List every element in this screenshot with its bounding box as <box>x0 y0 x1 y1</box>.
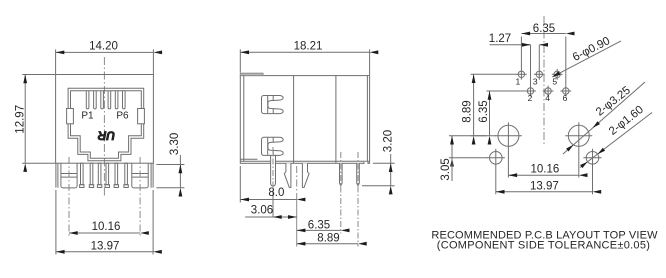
side view face line 2 <box>335 76 337 164</box>
dimension 8.0 <box>240 166 296 203</box>
dimension 8.89 layout <box>471 74 517 136</box>
small hole right <box>583 149 601 195</box>
front view centerline <box>103 57 105 197</box>
dimension 10.16 front <box>69 232 140 234</box>
shield leg 1 <box>80 163 84 187</box>
plastic snap leg right <box>302 163 309 187</box>
jack opening inner contour <box>71 91 142 159</box>
shield leg 4 <box>105 163 109 187</box>
shield leg 3 <box>97 163 101 187</box>
right tab centerline <box>139 157 141 236</box>
svg-text:8.89: 8.89 <box>317 232 339 244</box>
svg-text:6: 6 <box>563 93 568 103</box>
shield leg 6 <box>124 163 128 187</box>
right wall latch window <box>138 109 145 124</box>
svg-text:10.16: 10.16 <box>92 221 121 233</box>
dimension 3.20 <box>362 154 395 186</box>
contact pin 3 <box>101 91 104 109</box>
pcb hole pin 3 <box>534 69 545 80</box>
svg-text:3.30: 3.30 <box>169 133 181 155</box>
side pin 2 centerline <box>357 152 359 247</box>
contact pin 2 <box>94 91 97 109</box>
dimension 6.35 layout <box>487 91 526 136</box>
shield latch lower <box>262 137 284 155</box>
left wall latch window <box>67 109 74 124</box>
svg-text:10.16: 10.16 <box>531 163 560 175</box>
svg-text:1: 1 <box>516 76 521 86</box>
side view top lip <box>240 73 263 75</box>
svg-text:3: 3 <box>533 76 538 86</box>
svg-text:P6: P6 <box>116 111 129 122</box>
dimension 3.05 <box>449 136 488 181</box>
svg-text:6-φ0.90: 6-φ0.90 <box>571 35 612 64</box>
svg-text:3.06: 3.06 <box>251 205 273 217</box>
peg centerline <box>272 147 274 190</box>
svg-text:6.35: 6.35 <box>478 100 490 122</box>
svg-text:1.27: 1.27 <box>489 33 511 45</box>
svg-text:13.97: 13.97 <box>530 180 559 192</box>
leader 2-phi3.25 <box>563 82 645 154</box>
side view bottom inner line <box>240 160 369 162</box>
dimension 8.89 side <box>297 243 358 245</box>
dimension 6.35 side <box>297 229 341 231</box>
pcb hole pin 4 <box>543 86 554 97</box>
svg-text:3.05: 3.05 <box>440 158 452 180</box>
contact pin 5 <box>115 91 118 109</box>
jack opening outer contour <box>68 88 144 160</box>
pcb hole pin 6 <box>560 86 571 97</box>
dimension 10.16 layout <box>508 174 578 176</box>
dimension 3.30 <box>156 155 184 188</box>
snap centerline <box>296 166 298 193</box>
big hole right <box>565 122 592 177</box>
pcb hole pin 1 <box>516 69 527 80</box>
dimension 14.20 <box>56 49 154 74</box>
svg-text:3.20: 3.20 <box>382 130 394 152</box>
contact pin 4 <box>108 91 111 109</box>
right mounting tab <box>132 163 148 188</box>
dimension 12.97 <box>22 75 55 164</box>
svg-text:8.0: 8.0 <box>268 187 284 199</box>
pcb hole pin 5 <box>552 69 563 80</box>
shield leg 2 <box>89 163 93 187</box>
contact pin 6 <box>123 91 126 109</box>
side view body outline <box>240 76 369 164</box>
side pin 1 <box>340 163 343 185</box>
dimension 13.97 front <box>56 190 153 255</box>
side pin 2 <box>357 163 360 185</box>
leader 6-phi0.90 <box>552 41 621 77</box>
dimension 3.06 <box>245 190 297 217</box>
svg-text:12.97: 12.97 <box>14 105 26 134</box>
pcb hole pin 2 <box>525 86 536 97</box>
svg-text:2: 2 <box>528 93 533 103</box>
svg-text:P1: P1 <box>81 111 94 122</box>
dimension 1.27 <box>490 45 548 86</box>
small hole left <box>487 149 505 195</box>
shield board peg <box>271 155 276 186</box>
side view face line 1 <box>293 76 295 164</box>
flange right edge <box>151 163 153 187</box>
svg-text:5: 5 <box>552 76 557 86</box>
side view bottom left step <box>240 158 257 160</box>
dimension 13.97 layout <box>496 191 593 193</box>
flange left edge <box>56 163 58 187</box>
svg-text:6.35: 6.35 <box>533 23 555 35</box>
svg-text:6.35: 6.35 <box>308 219 330 231</box>
dimension 18.21 <box>240 49 369 75</box>
svg-text:13.97: 13.97 <box>91 240 120 252</box>
side view right edge inner line <box>366 76 368 164</box>
plastic snap leg left <box>284 163 291 187</box>
svg-text:(COMPONENT SIDE TOLERANCE±0.05: (COMPONENT SIDE TOLERANCE±0.05) <box>437 240 650 252</box>
big hole left <box>495 122 522 177</box>
left tab centerline <box>68 157 70 236</box>
dimension 6.35 top <box>521 34 565 86</box>
shield latch upper <box>262 96 284 114</box>
side view left inner line <box>243 76 245 162</box>
svg-text:14.20: 14.20 <box>89 41 118 53</box>
bottom wall notch <box>364 162 368 164</box>
front view body outline <box>56 75 154 164</box>
contact pin 1 <box>86 91 89 109</box>
svg-text:18.21: 18.21 <box>294 40 323 52</box>
svg-text:8.89: 8.89 <box>462 100 474 122</box>
svg-text:UR: UR <box>98 128 116 142</box>
left mounting tab <box>61 163 77 188</box>
shield leg 5 <box>114 163 118 187</box>
leader 2-phi1.60 <box>580 113 652 169</box>
layout centerline <box>543 16 545 146</box>
side pin 1 centerline <box>340 152 342 234</box>
svg-text:4: 4 <box>545 93 550 103</box>
